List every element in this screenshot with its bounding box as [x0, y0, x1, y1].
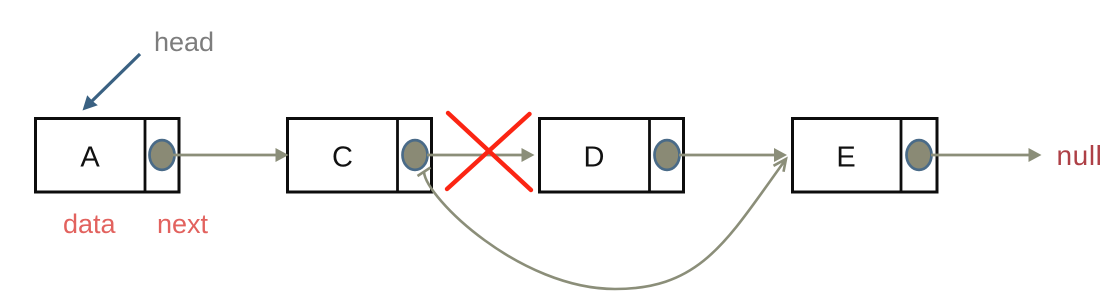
- svg-text:next: next: [157, 209, 209, 239]
- svg-text:D: D: [584, 142, 605, 174]
- svg-text:C: C: [332, 142, 353, 174]
- svg-text:null: null: [1057, 140, 1103, 171]
- svg-text:head: head: [154, 27, 214, 57]
- svg-text:A: A: [80, 142, 100, 174]
- svg-text:E: E: [836, 142, 855, 174]
- svg-text:data: data: [63, 209, 117, 239]
